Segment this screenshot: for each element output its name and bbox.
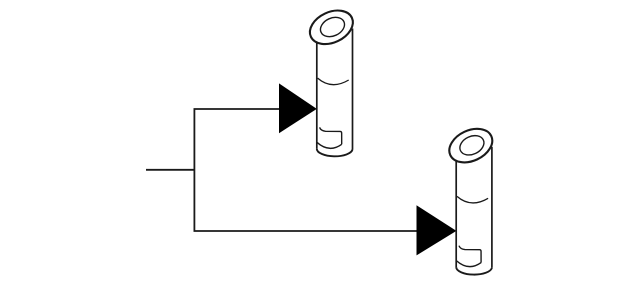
upper spark plug tube [304, 4, 358, 156]
arrowhead to lower tube [417, 205, 457, 255]
arrowhead to upper tube [279, 83, 317, 133]
wire: left stub [146, 169, 194, 171]
lower spark plug tube [444, 122, 498, 274]
wire: vertical branch [193, 109, 195, 231]
wire: top horizontal to upper arrow [194, 108, 281, 110]
wire: bottom horizontal to lower arrow [194, 230, 418, 232]
